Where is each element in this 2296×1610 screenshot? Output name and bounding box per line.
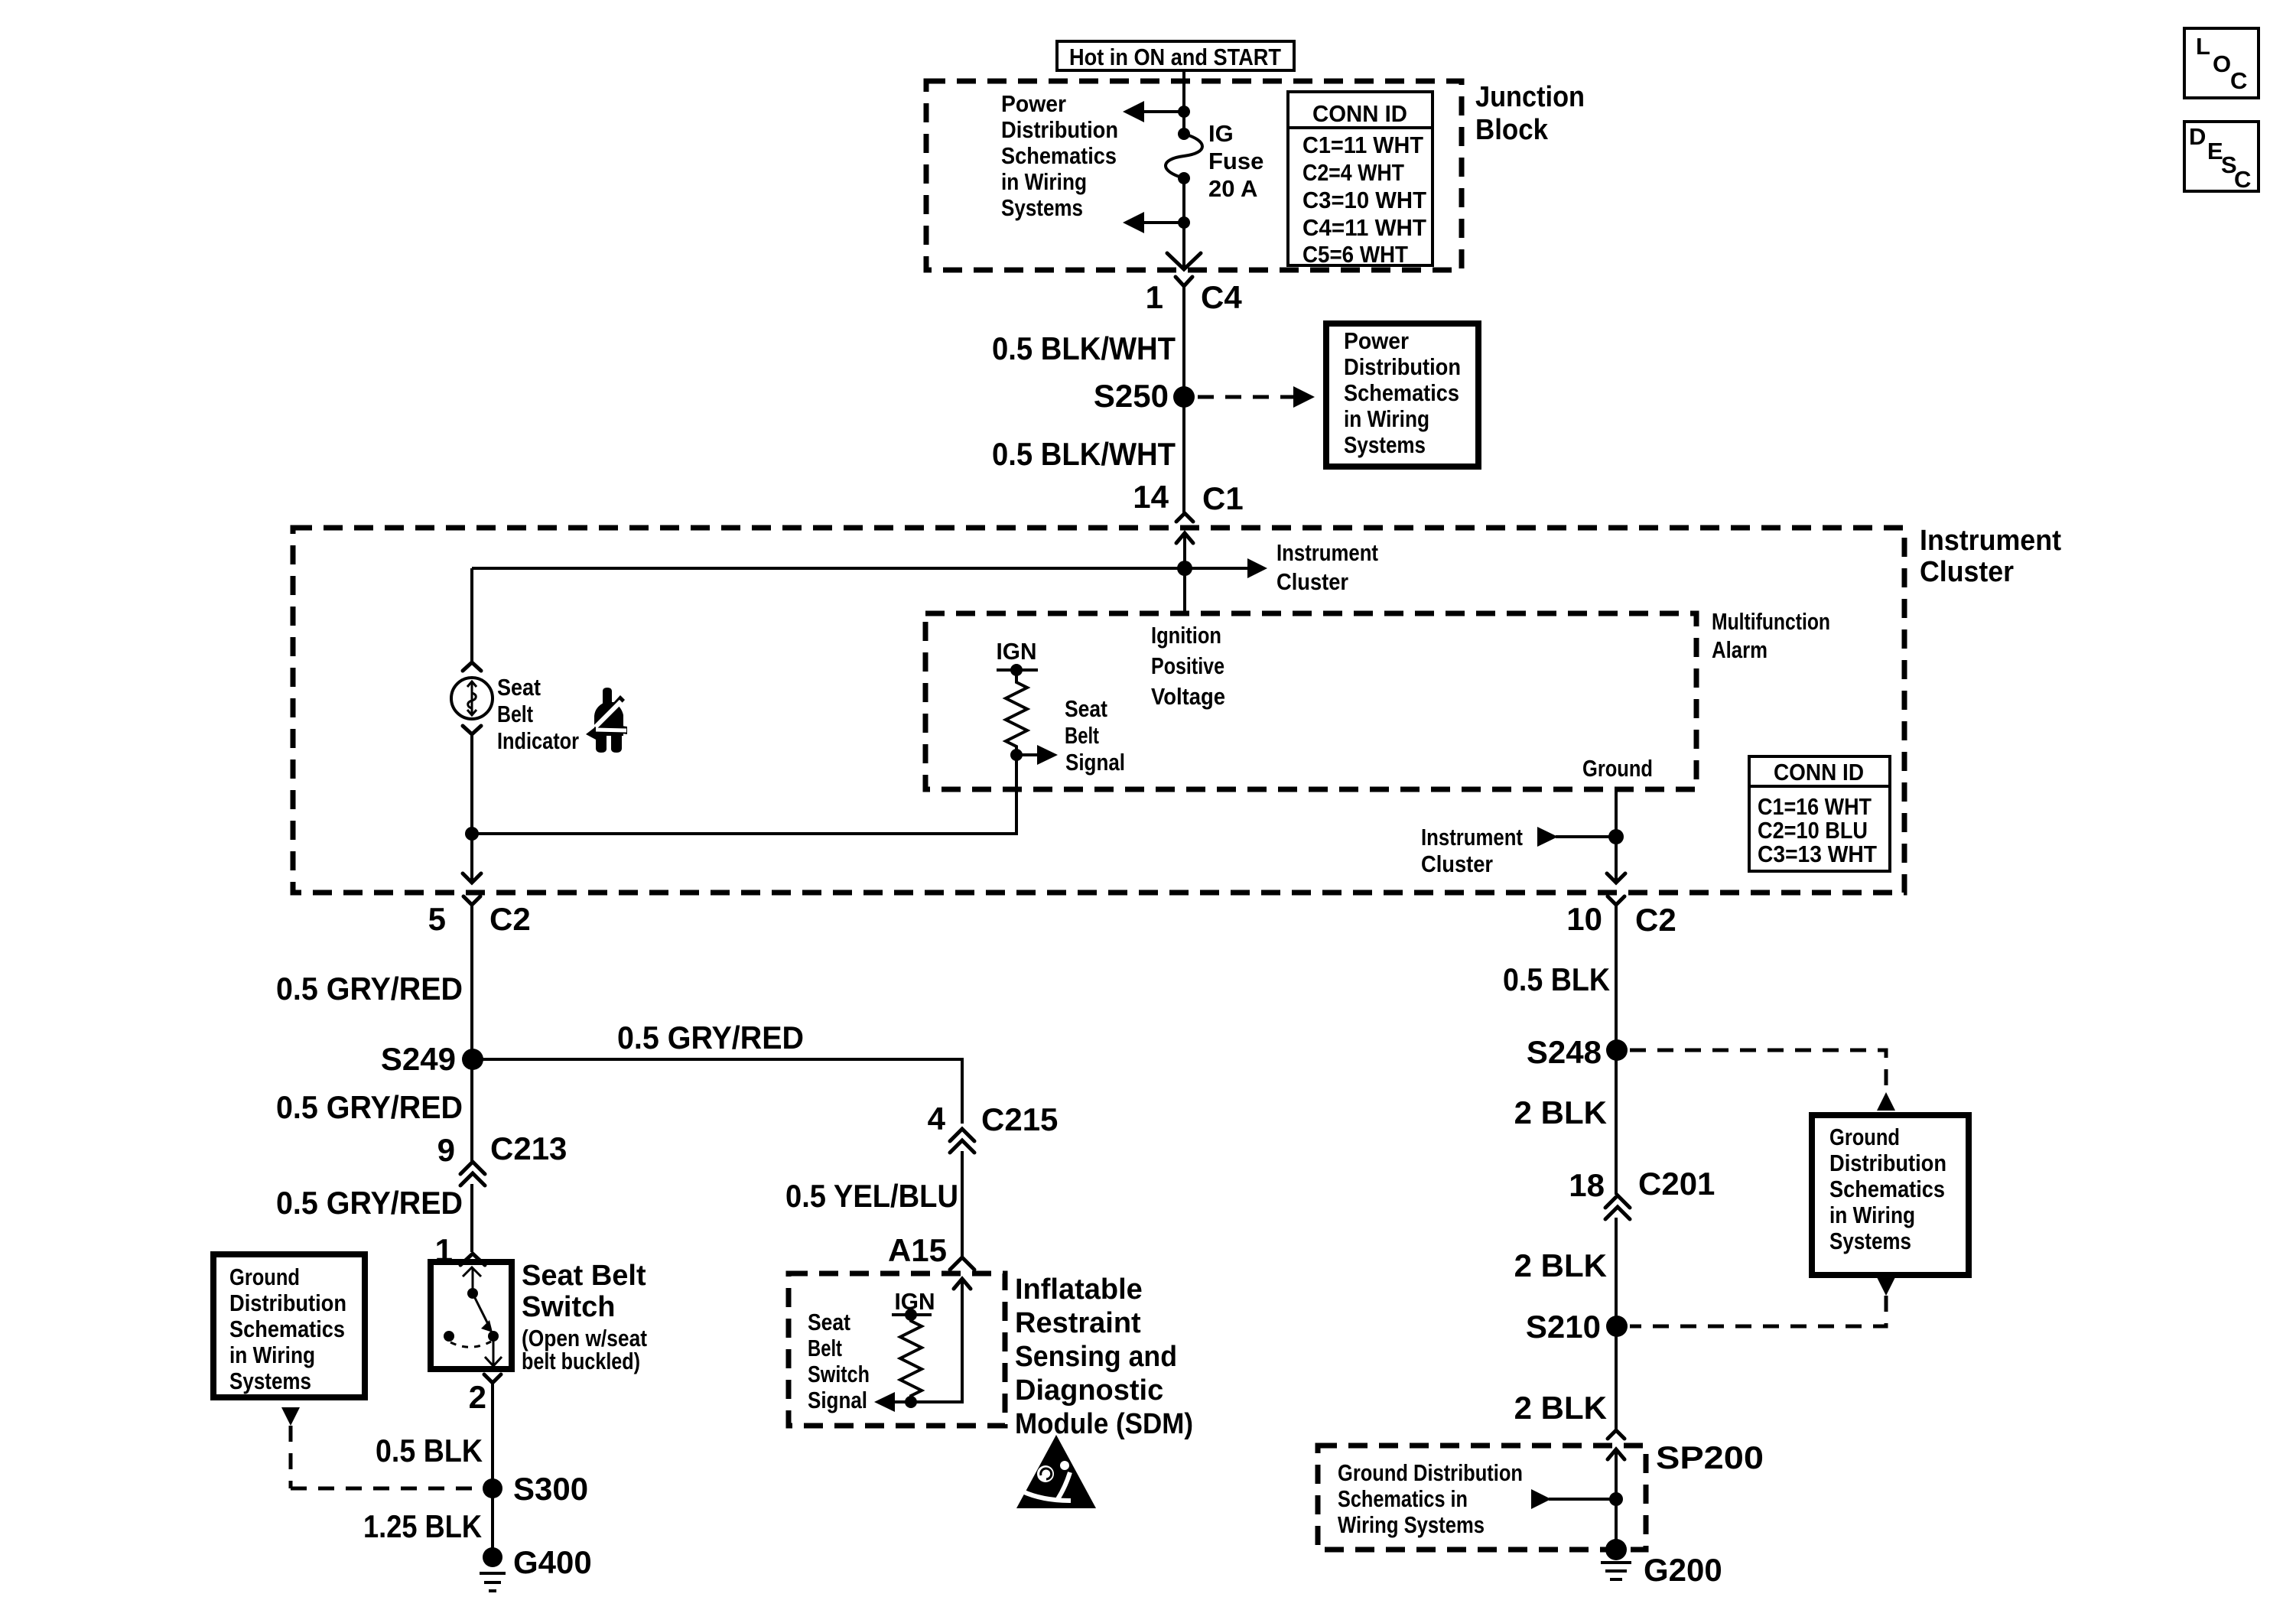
wire down to indicator — [470, 568, 473, 662]
splice SP200 — [1608, 1430, 1764, 1475]
svg-text:C3=10 WHT: C3=10 WHT — [1302, 187, 1426, 213]
svg-text:Belt: Belt — [1065, 722, 1099, 749]
svg-text:4: 4 — [928, 1101, 946, 1137]
svg-text:Schematics: Schematics — [1829, 1176, 1945, 1202]
svg-text:Distribution: Distribution — [1344, 353, 1461, 380]
svg-text:14: 14 — [1133, 479, 1169, 515]
svg-text:C213: C213 — [490, 1130, 567, 1166]
svg-text:0.5 BLK: 0.5 BLK — [376, 1433, 483, 1469]
svg-text:Seat: Seat — [497, 674, 541, 701]
svg-text:0.5 YEL/BLU: 0.5 YEL/BLU — [785, 1178, 958, 1214]
svg-text:Cluster: Cluster — [1421, 851, 1493, 877]
svg-text:0.5 GRY/RED: 0.5 GRY/RED — [617, 1020, 804, 1055]
seat belt switch signal arrow (SDM) — [874, 1392, 917, 1412]
SRS caution triangle — [1016, 1435, 1096, 1508]
svg-text:Ground: Ground — [229, 1264, 300, 1290]
fuse label IG Fuse 20 A — [1208, 120, 1263, 202]
open arrow at junction block exit — [1167, 253, 1201, 269]
svg-text:Diagnostic: Diagnostic — [1015, 1374, 1163, 1407]
svg-text:20 A: 20 A — [1208, 175, 1257, 202]
svg-text:Power: Power — [1001, 90, 1066, 117]
internal bus wire to indicator — [472, 567, 1247, 570]
svg-text:C: C — [2230, 67, 2247, 94]
svg-text:Wiring Systems: Wiring Systems — [1338, 1511, 1485, 1538]
ground distribution reference box (left) — [213, 1254, 365, 1397]
arrow to power distribution (lower) — [1123, 212, 1184, 233]
IGN node (SDM) — [892, 1288, 935, 1321]
svg-text:Ground: Ground — [1582, 755, 1653, 782]
svg-text:Junction: Junction — [1475, 81, 1585, 113]
svg-text:C2=10 BLU: C2=10 BLU — [1758, 817, 1868, 844]
svg-text:2 BLK: 2 BLK — [1514, 1247, 1607, 1283]
svg-text:0.5 BLK/WHT: 0.5 BLK/WHT — [992, 330, 1176, 366]
svg-text:in Wiring: in Wiring — [1829, 1202, 1915, 1228]
arrow to instrument cluster (internal) — [1247, 558, 1267, 578]
switch pin 2 — [469, 1374, 501, 1415]
svg-text:S300: S300 — [513, 1471, 588, 1507]
resistor (SDM) — [900, 1315, 922, 1402]
wire from hot banner down to fuse — [1182, 70, 1185, 134]
splice S249 — [381, 1041, 483, 1077]
svg-text:L: L — [2196, 33, 2210, 60]
svg-text:Seat: Seat — [808, 1309, 850, 1335]
wire switch to S300 — [491, 1383, 494, 1488]
svg-text:1: 1 — [1146, 279, 1163, 315]
svg-text:Instrument: Instrument — [1920, 525, 2061, 557]
svg-text:CONN ID: CONN ID — [1312, 100, 1407, 127]
svg-text:Distribution: Distribution — [1829, 1150, 1946, 1176]
svg-text:IG: IG — [1208, 120, 1234, 147]
svg-text:C2: C2 — [1635, 902, 1676, 938]
svg-text:Instrument: Instrument — [1276, 539, 1378, 566]
wire C2 to S249 — [470, 905, 473, 1059]
svg-text:C201: C201 — [1638, 1166, 1715, 1202]
ground distribution dashed box (bottom right) — [1318, 1446, 1646, 1550]
svg-text:Multifunction: Multifunction — [1712, 608, 1830, 635]
svg-text:0.5 BLK/WHT: 0.5 BLK/WHT — [992, 436, 1176, 472]
svg-text:Switch: Switch — [522, 1291, 615, 1323]
splice S250 — [1094, 378, 1195, 414]
svg-text:Indicator: Indicator — [497, 727, 579, 754]
svg-text:2 BLK: 2 BLK — [1514, 1390, 1607, 1426]
svg-text:S248: S248 — [1527, 1034, 1602, 1070]
svg-text:Schematics: Schematics — [1001, 142, 1117, 169]
svg-text:2: 2 — [469, 1379, 486, 1415]
svg-text:5: 5 — [428, 901, 446, 937]
svg-text:Restraint: Restraint — [1015, 1307, 1141, 1339]
svg-text:Signal: Signal — [1065, 749, 1125, 776]
junction block dashed box — [926, 81, 1462, 270]
connector C4 pin 1 — [1146, 277, 1243, 315]
svg-text:Sensing and: Sensing and — [1015, 1341, 1177, 1373]
svg-text:Fuse: Fuse — [1208, 148, 1263, 174]
svg-text:Schematics in: Schematics in — [1338, 1485, 1468, 1512]
svg-text:C: C — [2234, 166, 2251, 193]
dashed reference link S248 to ground dist box — [1630, 1050, 1895, 1111]
svg-text:O: O — [2213, 50, 2231, 77]
splice S248 — [1527, 1034, 1628, 1070]
svg-text:0.5 BLK: 0.5 BLK — [1503, 961, 1610, 997]
svg-text:G400: G400 — [513, 1544, 592, 1580]
svg-text:in Wiring: in Wiring — [1001, 168, 1087, 195]
svg-text:Cluster: Cluster — [1920, 556, 2014, 588]
svg-text:Block: Block — [1475, 114, 1549, 146]
svg-text:D: D — [2189, 123, 2206, 150]
seat belt indicator lamp — [451, 662, 493, 734]
svg-text:in Wiring: in Wiring — [229, 1342, 315, 1368]
svg-text:CONN ID: CONN ID — [1774, 759, 1864, 785]
svg-text:C3=13 WHT: C3=13 WHT — [1758, 841, 1877, 867]
power distribution text (junction block) — [1001, 90, 1118, 221]
open arrow at cluster exit (left) — [463, 873, 481, 883]
wire C2 to C201 — [1615, 905, 1618, 1195]
SDM label — [1015, 1273, 1193, 1440]
seat belt switch label — [522, 1260, 647, 1374]
seat belt person icon — [586, 688, 627, 753]
resistor (seat belt signal, multifunction alarm) — [1006, 670, 1027, 755]
multifunction alarm dashed box — [925, 613, 1696, 789]
node on ignition feed — [1177, 561, 1192, 576]
node at second feed tap — [1178, 216, 1190, 229]
SDM entry arrow and wire — [915, 1279, 971, 1402]
svg-text:0.5 GRY/RED: 0.5 GRY/RED — [276, 1089, 463, 1125]
svg-text:C1=11 WHT: C1=11 WHT — [1302, 132, 1423, 158]
ignition positive voltage label — [1151, 622, 1225, 710]
junction block label — [1475, 81, 1585, 146]
fuse IG 20A — [1166, 128, 1202, 184]
svg-text:Alarm: Alarm — [1712, 636, 1768, 663]
svg-text:Schematics: Schematics — [1344, 379, 1459, 406]
power distribution reference box — [1326, 324, 1478, 467]
wire SP200 to G200 — [1615, 1449, 1618, 1550]
seat belt switch signal label — [808, 1309, 870, 1413]
wire resistor to indicator bus — [472, 755, 1016, 834]
seat belt indicator label — [497, 674, 579, 754]
svg-text:Belt: Belt — [497, 701, 533, 727]
svg-text:Systems: Systems — [1001, 194, 1083, 221]
svg-text:Switch: Switch — [808, 1361, 870, 1387]
instrument cluster internal label (right) — [1421, 824, 1523, 877]
svg-text:Power: Power — [1344, 327, 1409, 354]
svg-text:Module (SDM): Module (SDM) — [1015, 1408, 1193, 1440]
svg-text:C2: C2 — [489, 901, 531, 937]
svg-text:10: 10 — [1566, 901, 1602, 937]
IGN node (multifunction alarm) — [997, 638, 1039, 676]
DESC legend box — [2184, 122, 2259, 193]
svg-text:Belt: Belt — [808, 1335, 842, 1361]
splice S210 — [1526, 1309, 1628, 1345]
wire from fuse to box bottom — [1182, 178, 1185, 268]
ground G200 — [1601, 1539, 1722, 1588]
svg-text:Voltage: Voltage — [1151, 683, 1225, 710]
svg-text:Cluster: Cluster — [1276, 568, 1348, 595]
svg-text:Distribution: Distribution — [229, 1290, 346, 1316]
svg-text:Inflatable: Inflatable — [1015, 1273, 1143, 1306]
svg-text:0.5 GRY/RED: 0.5 GRY/RED — [276, 971, 463, 1007]
seat belt switch box — [431, 1262, 512, 1369]
svg-text:C1: C1 — [1202, 480, 1244, 516]
svg-text:C5=6 WHT: C5=6 WHT — [1302, 241, 1408, 268]
ground G400 — [480, 1544, 592, 1591]
SDM pin A15 — [888, 1232, 974, 1270]
dashed reference link box to S210 — [1630, 1277, 1895, 1326]
branch wire S249 to C215 — [473, 1059, 962, 1124]
connector C2 pin 10 — [1566, 896, 1676, 938]
SDM dashed box — [789, 1273, 1005, 1426]
wire C201 to SP200 — [1615, 1218, 1618, 1429]
svg-text:C4=11 WHT: C4=11 WHT — [1302, 214, 1426, 241]
svg-text:Ignition: Ignition — [1151, 622, 1221, 649]
connector C1 pin 14 — [1133, 479, 1243, 543]
svg-text:Systems: Systems — [1344, 431, 1426, 458]
multifunction alarm label — [1712, 608, 1830, 663]
svg-text:Ground Distribution: Ground Distribution — [1338, 1459, 1523, 1486]
svg-text:C2=4 WHT: C2=4 WHT — [1302, 159, 1404, 186]
svg-text:IGN: IGN — [997, 638, 1037, 665]
ground wire inside cluster — [1615, 789, 1618, 882]
node at first feed tap — [1178, 106, 1190, 118]
svg-text:C1=16 WHT: C1=16 WHT — [1758, 793, 1872, 820]
connector C213 pin 9 — [437, 1130, 567, 1186]
wire C215 to A15 — [961, 1151, 964, 1257]
instrument cluster internal label — [1276, 539, 1378, 595]
svg-text:S249: S249 — [381, 1041, 456, 1077]
wire S249 down — [470, 1059, 473, 1162]
svg-text:Distribution: Distribution — [1001, 116, 1118, 143]
wire C1 into cluster — [1183, 533, 1186, 613]
connector C2 pin 5 — [428, 896, 531, 937]
hot-in-on banner box — [1057, 41, 1294, 70]
open arrow at cluster exit (right) — [1607, 873, 1625, 883]
dashed reference link to S300 — [281, 1407, 480, 1488]
instrument cluster dashed box — [293, 528, 1904, 893]
wire S250 to C1 — [1182, 397, 1185, 513]
svg-text:belt buckled): belt buckled) — [522, 1348, 640, 1374]
connector C201 pin 18 — [1569, 1166, 1715, 1219]
svg-text:1.25 BLK: 1.25 BLK — [363, 1508, 482, 1544]
svg-text:Ground: Ground — [1829, 1124, 1900, 1150]
seat belt signal arrow — [1010, 745, 1058, 765]
ground distribution text (bottom right) — [1338, 1459, 1523, 1538]
seat belt signal label — [1065, 695, 1125, 776]
svg-text:G200: G200 — [1644, 1552, 1722, 1588]
wire C4 to S250 — [1182, 286, 1185, 397]
svg-text:C215: C215 — [981, 1101, 1058, 1137]
svg-text:Instrument: Instrument — [1421, 824, 1523, 851]
svg-text:Systems: Systems — [1829, 1228, 1911, 1254]
node on ground wire — [1608, 829, 1624, 844]
svg-text:Seat: Seat — [1065, 695, 1107, 722]
svg-text:S210: S210 — [1526, 1309, 1601, 1345]
svg-text:SP200: SP200 — [1656, 1439, 1764, 1475]
svg-text:C4: C4 — [1201, 279, 1242, 315]
svg-text:in Wiring: in Wiring — [1344, 405, 1429, 432]
wire C213 to switch — [470, 1184, 473, 1252]
svg-text:2 BLK: 2 BLK — [1514, 1094, 1607, 1130]
arrow to G200 wire — [1531, 1489, 1623, 1509]
wire indicator to C2 — [470, 734, 473, 882]
svg-text:9: 9 — [437, 1132, 455, 1168]
instrument cluster label — [1920, 525, 2061, 588]
svg-text:Signal: Signal — [808, 1387, 867, 1413]
svg-text:Hot in ON and START: Hot in ON and START — [1069, 44, 1281, 70]
svg-text:A15: A15 — [888, 1232, 947, 1268]
svg-text:18: 18 — [1569, 1167, 1605, 1203]
ground distribution reference box (right) — [1812, 1115, 1969, 1275]
wire S300 to G400 — [491, 1488, 494, 1550]
svg-text:Positive: Positive — [1151, 652, 1224, 679]
svg-text:0.5 GRY/RED: 0.5 GRY/RED — [276, 1185, 463, 1221]
LOC legend box — [2184, 28, 2259, 98]
node at indicator branch — [465, 827, 479, 841]
arrow to power distribution (upper) — [1123, 101, 1184, 122]
CONN ID table (junction block) — [1288, 92, 1433, 268]
splice S300 — [483, 1471, 588, 1507]
instrument cluster ground arrow — [1537, 827, 1616, 847]
svg-text:S250: S250 — [1094, 378, 1169, 414]
dashed reference arrow from S250 — [1198, 386, 1315, 408]
CONN ID table (instrument cluster) — [1749, 756, 1890, 871]
seat belt switch internals — [444, 1267, 502, 1366]
svg-text:Seat Belt: Seat Belt — [522, 1260, 646, 1292]
connector C215 pin 4 — [928, 1101, 1059, 1153]
svg-text:Schematics: Schematics — [229, 1316, 345, 1342]
svg-text:Systems: Systems — [229, 1368, 311, 1394]
switch pin 1 — [435, 1232, 485, 1268]
